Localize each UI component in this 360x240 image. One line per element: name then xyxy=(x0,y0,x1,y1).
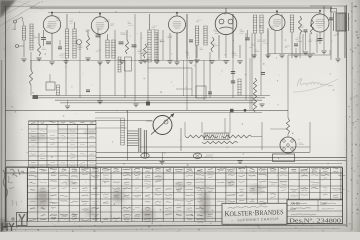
svg-text:Des.Nº. 234800: Des.Nº. 234800 xyxy=(289,217,341,224)
svg-text:Job No: Job No xyxy=(290,202,300,206)
svg-text:Date: Date xyxy=(320,202,327,206)
svg-text:App: App xyxy=(290,207,296,211)
